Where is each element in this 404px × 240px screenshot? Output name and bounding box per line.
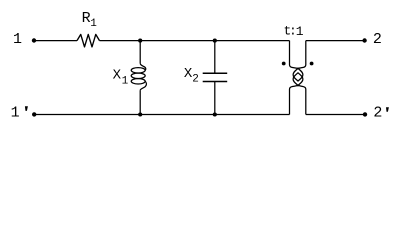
svg-text:1: 1 xyxy=(11,104,20,121)
svg-text:2: 2 xyxy=(192,73,199,85)
svg-text:1: 1 xyxy=(296,24,304,39)
svg-text:1: 1 xyxy=(122,75,129,87)
svg-text:2: 2 xyxy=(373,31,382,48)
svg-text:X: X xyxy=(113,68,122,84)
svg-text:1: 1 xyxy=(90,18,97,30)
svg-text:1: 1 xyxy=(13,31,22,48)
svg-text:2: 2 xyxy=(373,104,382,121)
